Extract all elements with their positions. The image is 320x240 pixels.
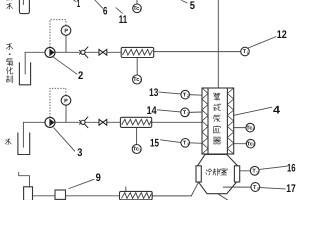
svg-text:6: 6 [103, 6, 108, 18]
svg-text:Tc: Tc [133, 147, 139, 153]
svg-text:1: 1 [139, 8, 141, 12]
svg-text:1: 1 [247, 51, 249, 55]
svg-text:2: 2 [187, 94, 189, 98]
svg-text:3: 3 [77, 147, 82, 159]
svg-text:Tc: Tc [133, 77, 139, 83]
svg-text:4: 4 [187, 142, 189, 146]
svg-text:5: 5 [257, 170, 259, 174]
svg-text:12: 12 [277, 29, 287, 41]
svg-text:3: 3 [187, 112, 189, 116]
svg-text:13: 13 [149, 87, 158, 99]
svg-text:16: 16 [287, 163, 296, 175]
svg-text:4: 4 [252, 127, 254, 131]
svg-text:P: P [64, 28, 68, 34]
svg-text:4: 4 [273, 105, 281, 117]
svg-text:5: 5 [190, 0, 195, 12]
svg-text:14: 14 [147, 105, 158, 117]
svg-text:15: 15 [150, 137, 159, 149]
svg-text:9: 9 [96, 172, 101, 184]
svg-text:11: 11 [119, 14, 127, 26]
svg-text:P: P [64, 99, 68, 105]
svg-text:6: 6 [257, 187, 259, 191]
svg-text:5: 5 [253, 143, 255, 147]
svg-text:2: 2 [78, 70, 83, 82]
svg-text:17: 17 [286, 183, 295, 195]
svg-text:2: 2 [140, 79, 142, 83]
svg-text:3: 3 [139, 149, 141, 153]
svg-text:1: 1 [77, 0, 80, 10]
